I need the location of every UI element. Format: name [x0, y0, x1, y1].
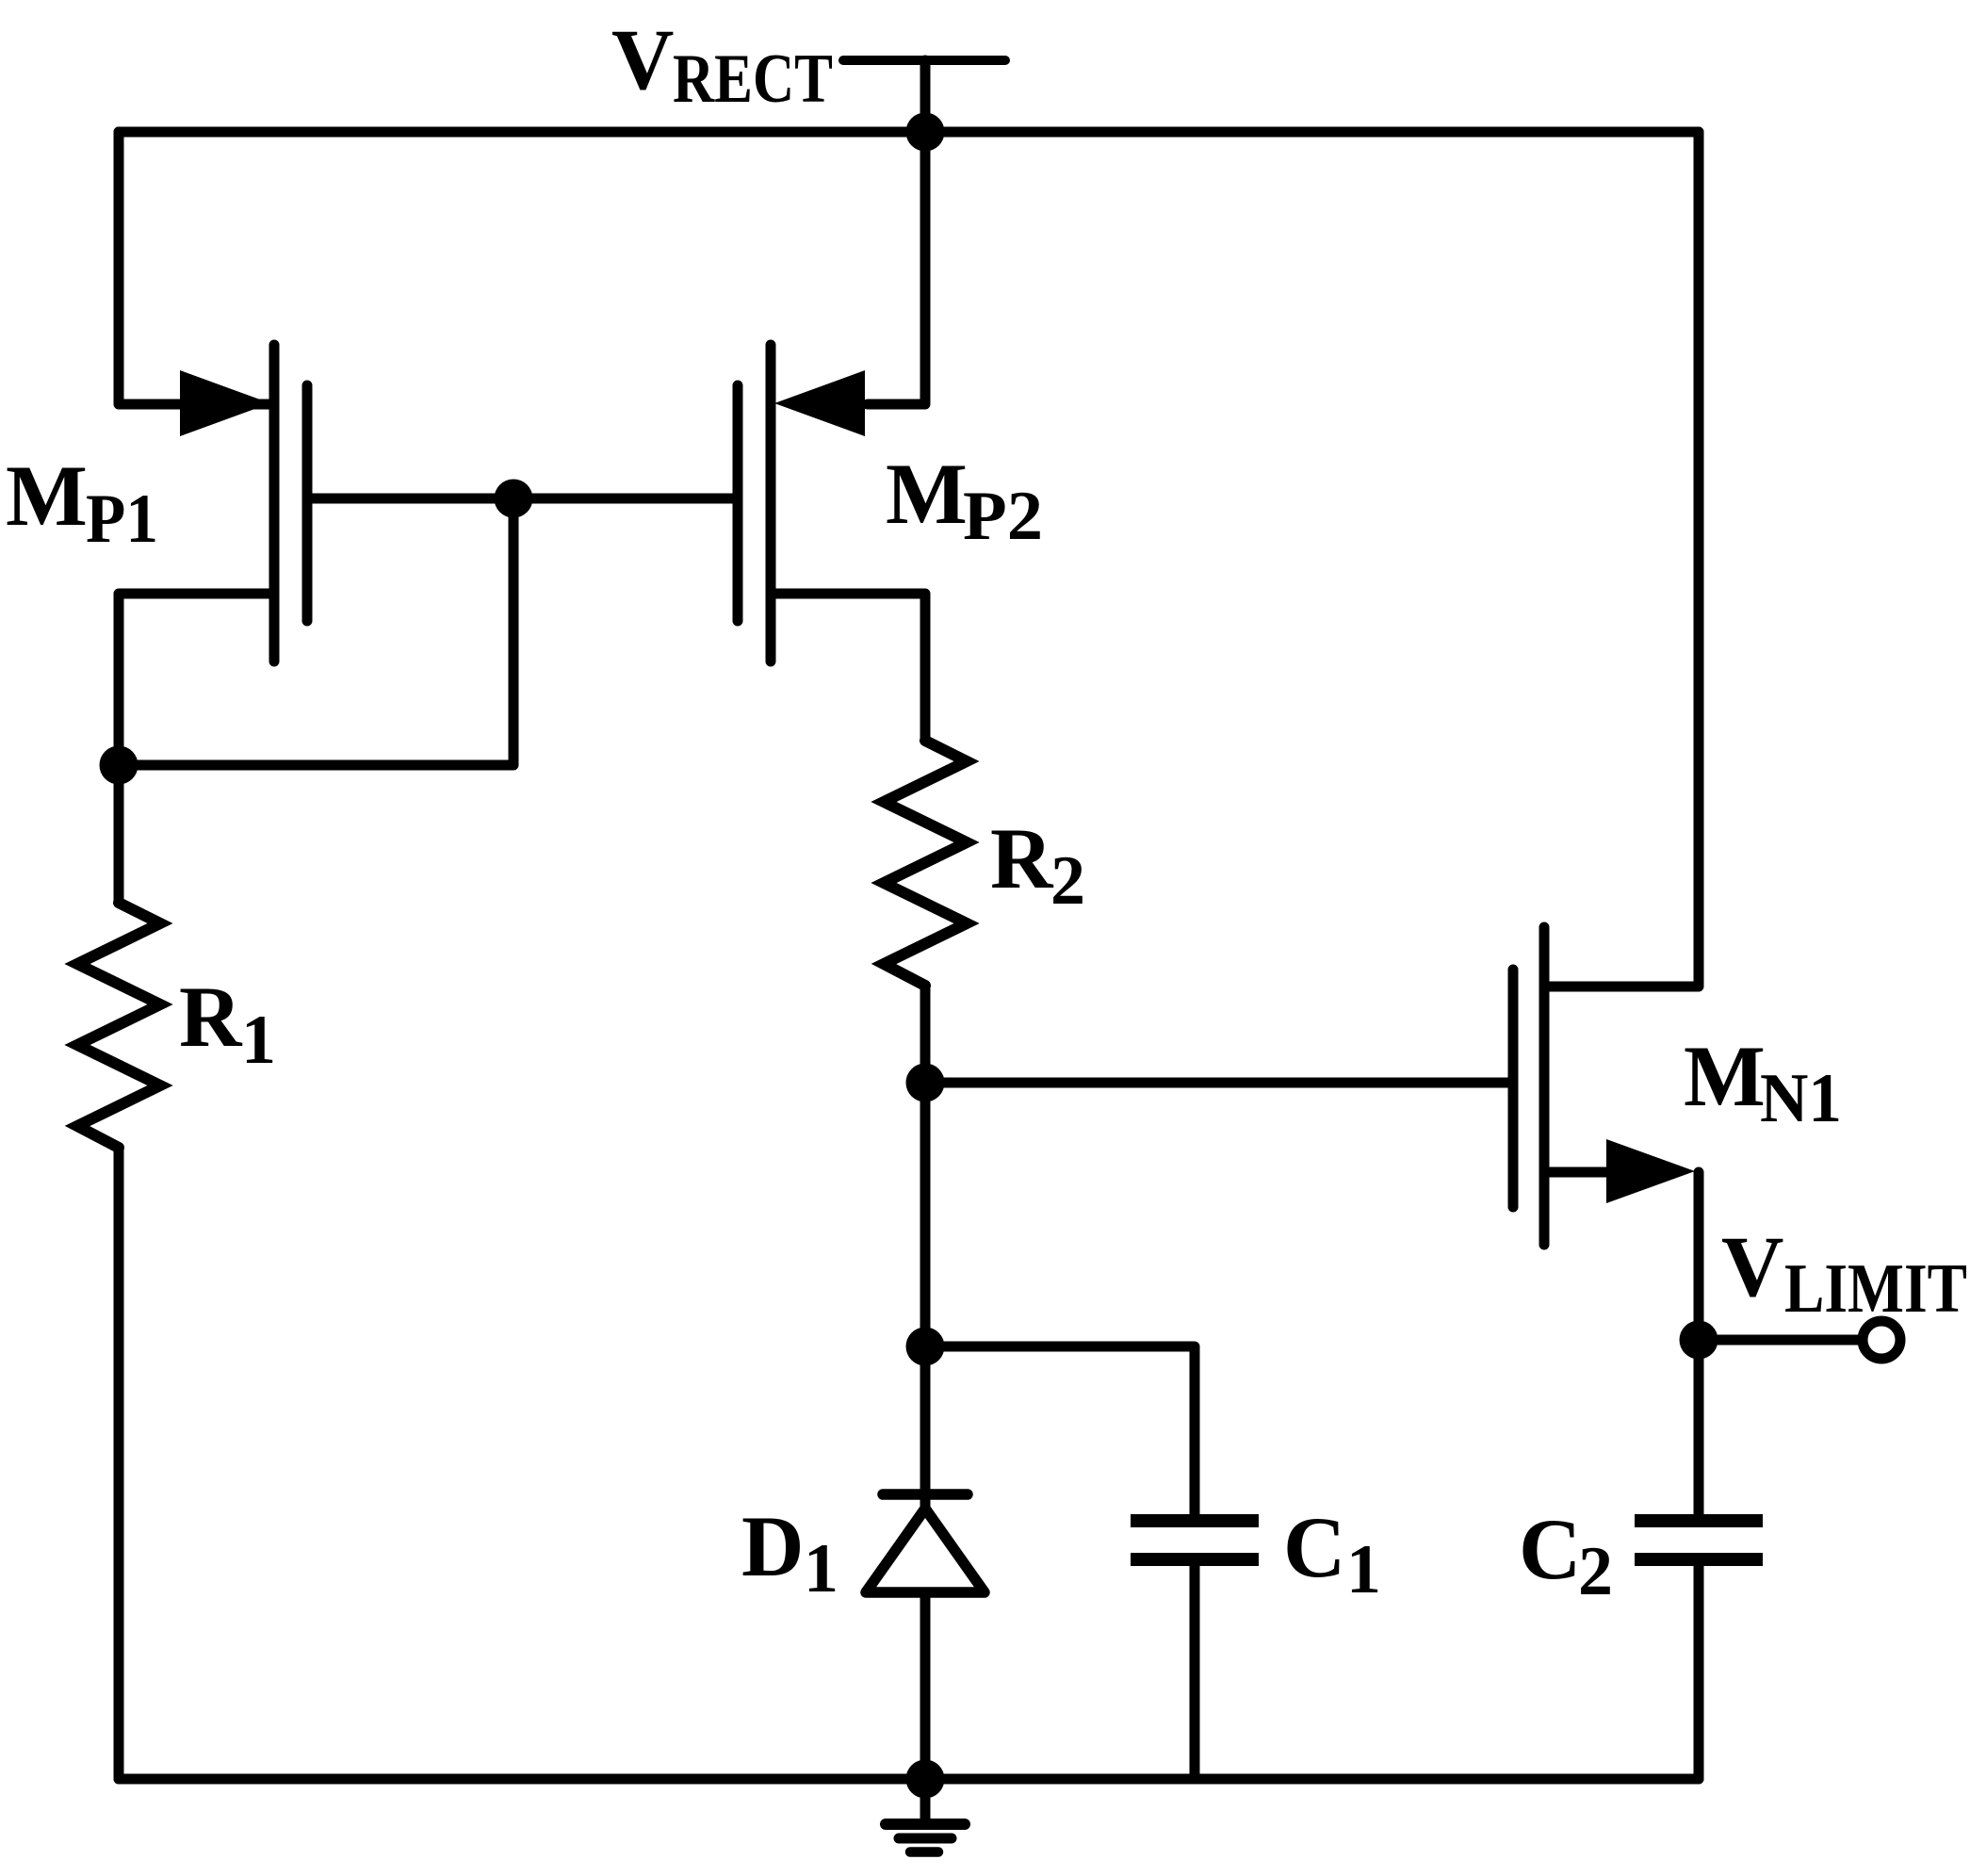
- C2 top plate: [1635, 1514, 1763, 1527]
- terminal VLIMIT open circle: [1863, 1321, 1900, 1359]
- wire C2 bottom lead: [1694, 1566, 1704, 1779]
- label C1: [1283, 1499, 1381, 1608]
- MN1 gate bar: [1508, 970, 1519, 1207]
- junction VLIMIT: [1680, 1321, 1718, 1360]
- wire node A to MN1 gate: [925, 1078, 1508, 1088]
- MP2 gate bar: [733, 385, 743, 621]
- power bar VRECT: [843, 56, 1005, 65]
- svg-text:D: D: [741, 1498, 804, 1594]
- transistor MN1: [1513, 927, 1695, 1245]
- C1 top plate: [1131, 1514, 1259, 1527]
- wire MN1 source down: [1550, 1167, 1611, 1178]
- wire VLIMIT output: [1699, 1335, 1863, 1346]
- svg-text:1: 1: [1346, 1531, 1381, 1608]
- MP1 channel bar: [269, 345, 280, 661]
- ground bar 1: [886, 1819, 965, 1830]
- wire MP2 drain down to R2: [771, 594, 925, 741]
- label R1: [179, 969, 276, 1079]
- svg-text:V: V: [1721, 1218, 1783, 1314]
- diode D1: [866, 1494, 985, 1592]
- svg-text:1: 1: [241, 1002, 276, 1079]
- C2 bottom plate: [1635, 1553, 1763, 1566]
- label MP1: [6, 448, 158, 558]
- wire C1 bottom lead: [1190, 1566, 1200, 1779]
- capacitor C2: [1635, 1521, 1763, 1559]
- D1 cathode bar: [883, 1489, 968, 1500]
- wire D1 top lead: [920, 1346, 931, 1508]
- svg-text:R: R: [179, 969, 243, 1065]
- junction node A (R2 / MN1 gate): [906, 1064, 945, 1102]
- D1 triangle: [866, 1509, 985, 1592]
- label MP2: [886, 446, 1043, 555]
- MP1 gate bar: [302, 385, 313, 621]
- MN1 source arrow: [1606, 1139, 1695, 1203]
- wire R1 bottom lead: [114, 1148, 124, 1779]
- svg-text:V: V: [611, 11, 674, 107]
- svg-text:1: 1: [804, 1530, 838, 1607]
- svg-text:2: 2: [1578, 1533, 1613, 1610]
- MP2 source arrow: [774, 370, 865, 436]
- svg-text:C: C: [1283, 1499, 1345, 1595]
- wire gate node to MP2 gate: [513, 494, 733, 504]
- MP2 channel bar: [766, 345, 776, 661]
- wire MP1 gate to node: [312, 494, 513, 504]
- svg-text:N1: N1: [1760, 1060, 1842, 1137]
- svg-text:C: C: [1519, 1501, 1581, 1597]
- junction node B (D1 / C1): [906, 1328, 945, 1366]
- svg-text:P1: P1: [86, 481, 158, 558]
- resistor R2: [884, 741, 967, 986]
- wire MN1 source vertical to C2: [1694, 1172, 1704, 1514]
- wire MP1 drain to left column: [119, 594, 274, 903]
- ground stub: [920, 1779, 931, 1820]
- transistor MP2: [738, 345, 865, 661]
- label R2: [990, 810, 1085, 920]
- label C2: [1519, 1501, 1613, 1610]
- wire node B to C1: [925, 1346, 1195, 1514]
- svg-text:RECT: RECT: [673, 41, 833, 118]
- wire left vertical to MP1 source: [119, 132, 270, 404]
- svg-text:P2: P2: [963, 478, 1043, 555]
- wire top rail VRECT: [119, 127, 1699, 138]
- label D1: [741, 1498, 838, 1607]
- wire diode-connect tie: [119, 498, 513, 765]
- junction ground: [906, 1760, 945, 1799]
- svg-text:LIMIT: LIMIT: [1784, 1250, 1967, 1328]
- svg-text:M: M: [1684, 1028, 1766, 1124]
- wire D1 bottom lead: [920, 1593, 931, 1779]
- svg-text:M: M: [6, 448, 88, 544]
- capacitor C1: [1131, 1521, 1259, 1559]
- junction gate node: [495, 480, 533, 518]
- label VLIMIT: [1721, 1218, 1967, 1328]
- svg-text:2: 2: [1050, 842, 1085, 920]
- wire VRECT stub: [920, 60, 931, 132]
- wire R2 bottom to node B: [920, 986, 931, 1346]
- MN1 channel bar: [1539, 927, 1550, 1245]
- svg-text:R: R: [990, 810, 1054, 906]
- junction VRECT: [906, 113, 945, 152]
- label VRECT: [611, 11, 833, 118]
- label MN1: [1684, 1028, 1842, 1137]
- C1 bottom plate: [1131, 1553, 1259, 1566]
- svg-text:M: M: [886, 446, 968, 542]
- wire MP2 source from VRECT: [868, 132, 925, 404]
- ground: [886, 1779, 965, 1852]
- transistor MP1: [180, 345, 307, 661]
- junction MP1 drain tie: [100, 746, 138, 785]
- ground bar 3: [910, 1847, 938, 1857]
- wire MN1 drain to right rail: [1550, 132, 1699, 987]
- wire bottom ground rail: [119, 1774, 1699, 1785]
- MP1 source arrow: [180, 370, 270, 436]
- ground bar 2: [899, 1834, 952, 1844]
- resistor R1: [77, 903, 160, 1148]
